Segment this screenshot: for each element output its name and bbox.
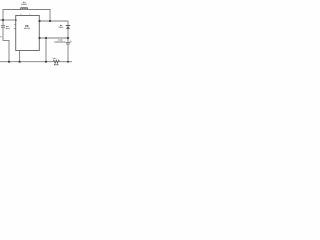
IC box U1 [16, 16, 40, 51]
wire input rail [0, 19, 16, 21]
IC pin stub left y29 [14, 28, 16, 30]
node ground cap [67, 61, 69, 63]
label L1 [23, 1, 26, 3]
label speck [0, 36, 2, 38]
label C1 [6, 26, 8, 28]
node ground IC [19, 61, 21, 63]
wire IC bottom pin [19, 51, 21, 62]
IC pin speck top b [29, 13, 31, 15]
label R1 [53, 58, 57, 60]
wire feedback divider drop [45, 38, 47, 62]
capacitor C1 plates [1, 26, 5, 28]
inductor L1 [21, 8, 28, 10]
node IC switch pin [38, 20, 40, 22]
wire IC right pin to diode column [39, 21, 68, 25]
node ground C1 [8, 61, 10, 63]
node input junction [2, 19, 4, 21]
resistor R1 [53, 60, 60, 63]
label C3 value [54, 41, 65, 43]
label D1 part [59, 26, 63, 28]
capacitor C3 plus sign [70, 41, 71, 42]
capacitor C3 plates [66, 43, 71, 44]
wire ground rail left [0, 61, 53, 63]
node output cap junction [67, 37, 69, 39]
wire from L1 to switch-node corner [28, 10, 50, 22]
label R1 value [54, 64, 59, 66]
label L1 value [21, 3, 27, 5]
label C3 [58, 39, 63, 41]
node switch junction [49, 20, 51, 22]
wire diode to output node [67, 29, 69, 43]
wire under inductor [21, 9, 28, 11]
wire C1 top lead [2, 20, 4, 25]
wire top-left riser [3, 10, 21, 21]
node ground divider [45, 61, 47, 63]
wire C1 bottom lead with jog [3, 28, 9, 62]
IC pin speck top a [20, 13, 22, 15]
wire ground rail right [60, 61, 72, 63]
IC pin stub left y24 [14, 23, 16, 25]
diode D1 [66, 26, 70, 29]
node IC input pin [15, 20, 16, 21]
wire output feedback [39, 37, 68, 39]
wire cap C3 bottom lead [67, 44, 69, 62]
node IC output pin [38, 37, 40, 39]
label D1 [60, 24, 62, 26]
label C1 value [6, 27, 10, 29]
label IC part [24, 27, 30, 29]
node feedback junction [45, 37, 47, 39]
label IC1 [25, 25, 29, 27]
